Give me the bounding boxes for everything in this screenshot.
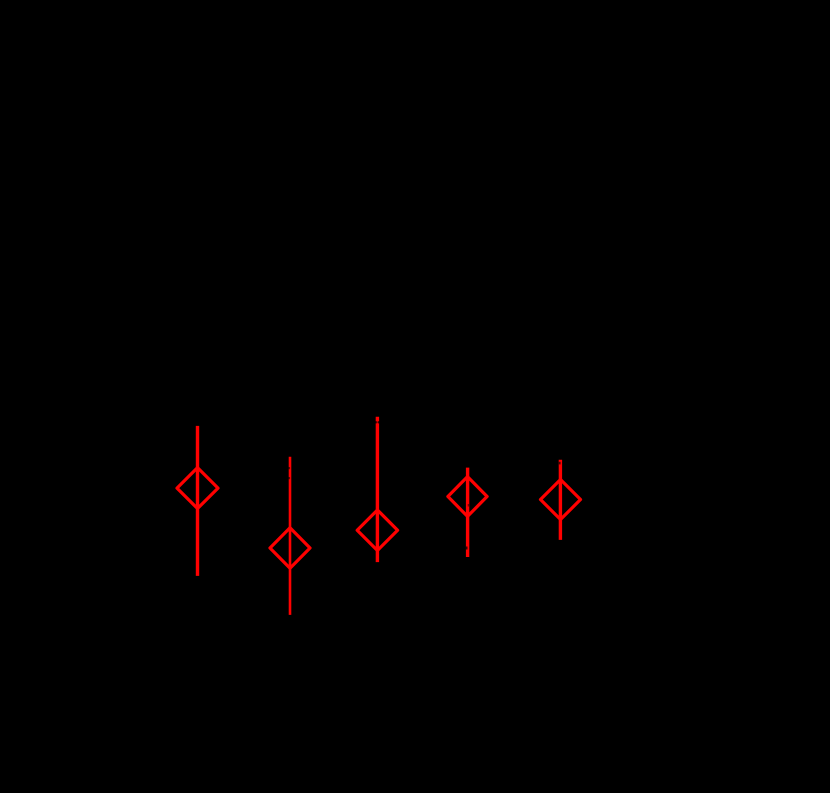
diamond marker 1	[177, 468, 218, 509]
diamond marker 3	[357, 510, 397, 551]
dashed overlay crossing bar 4	[466, 547, 468, 550]
dashed overlay crossing bar 3	[375, 421, 377, 423]
diamond marker 2	[270, 528, 310, 569]
diamond marker 4	[448, 477, 487, 517]
error bar 2	[289, 457, 292, 615]
error bar 4	[466, 468, 469, 557]
dashed overlay crossing bar 5	[559, 462, 561, 465]
error bar 5	[559, 460, 562, 540]
diamond marker 5	[541, 479, 581, 519]
error bar 3	[376, 417, 379, 562]
dashed overlay crossing bar 2	[288, 467, 290, 469]
error bar 1	[196, 426, 199, 576]
